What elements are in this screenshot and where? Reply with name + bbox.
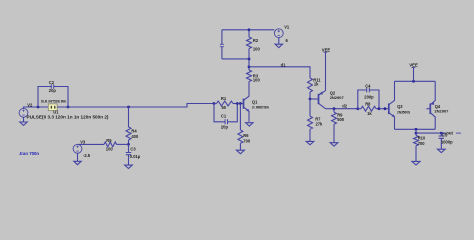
svg-text:20p: 20p bbox=[49, 88, 57, 93]
capacitor C4 bbox=[358, 83, 379, 108]
directive .tran bbox=[19, 151, 40, 156]
svg-text:d1: d1 bbox=[281, 62, 287, 67]
wire out bbox=[416, 132, 446, 134]
svg-text:R4: R4 bbox=[131, 129, 137, 134]
svg-text:100: 100 bbox=[106, 146, 114, 151]
net flag VEE lower bbox=[409, 63, 418, 82]
node C5 tap bbox=[440, 132, 443, 135]
svg-text:R5: R5 bbox=[106, 138, 112, 143]
transistor Q1 bbox=[244, 82, 270, 122]
resistor R4 bbox=[126, 127, 139, 140]
resistor R3 bbox=[247, 67, 261, 83]
svg-text:1k: 1k bbox=[314, 82, 319, 87]
wire out stub bbox=[415, 129, 417, 133]
svg-text:C2: C2 bbox=[49, 80, 55, 85]
resistor R6 bbox=[238, 130, 251, 143]
node R8 C4 left bbox=[356, 107, 359, 110]
ground under Q1 emitter bbox=[246, 123, 253, 126]
wire R6 to ground bbox=[239, 143, 241, 150]
svg-text:R10: R10 bbox=[418, 136, 426, 141]
wire R4 to node bbox=[128, 140, 130, 144]
svg-text:27k: 27k bbox=[316, 121, 324, 126]
svg-text:VEE: VEE bbox=[322, 47, 331, 52]
svg-text:R2: R2 bbox=[253, 38, 259, 43]
node out tap bbox=[415, 128, 418, 131]
wire R6 stub bbox=[239, 104, 241, 131]
svg-text:0.01µ: 0.01µ bbox=[130, 154, 141, 159]
wire emitter rail bottom bbox=[395, 128, 436, 130]
svg-text:500: 500 bbox=[337, 117, 345, 122]
svg-text:PULSE(0 3.3 120n 1n 1n 120n 50: PULSE(0 3.3 120n 1n 1n 120n 500n 2) bbox=[27, 114, 110, 119]
svg-text:200p: 200p bbox=[364, 94, 374, 99]
svg-text:V1: V1 bbox=[284, 25, 290, 30]
svg-text:C1: C1 bbox=[221, 113, 227, 118]
svg-text:1k: 1k bbox=[367, 111, 372, 116]
ground under V2 bbox=[20, 117, 27, 125]
svg-text:d2: d2 bbox=[342, 103, 348, 108]
net label d2 bbox=[342, 103, 348, 108]
node R6 tap bbox=[239, 102, 242, 105]
resistor R1 bbox=[214, 96, 237, 110]
ground under R7 bbox=[306, 141, 314, 144]
svg-text:700: 700 bbox=[418, 141, 426, 146]
svg-text:VEE: VEE bbox=[409, 63, 418, 68]
wire R2 bottom bbox=[222, 59, 249, 67]
svg-text:R1: R1 bbox=[221, 96, 227, 101]
svg-text:2N3500S: 2N3500S bbox=[397, 109, 410, 114]
net flag VEE upper bbox=[322, 47, 331, 52]
svg-text:-2.5: -2.5 bbox=[83, 153, 91, 158]
capacitor C1 bbox=[214, 104, 237, 130]
resistor R11 bbox=[308, 77, 322, 99]
wire R5 to node bbox=[117, 143, 129, 145]
voltage source V1 bbox=[274, 25, 290, 44]
svg-text:50: 50 bbox=[222, 105, 227, 110]
svg-text:2N2907: 2N2907 bbox=[330, 95, 345, 100]
svg-text:R8: R8 bbox=[365, 101, 371, 106]
svg-text:20p: 20p bbox=[221, 125, 229, 130]
voltage source V3 bbox=[73, 139, 91, 158]
svg-text:700: 700 bbox=[243, 138, 251, 143]
wire R10 to ground bbox=[415, 146, 417, 162]
resistor R2 bbox=[247, 30, 261, 59]
node C2 left tap bbox=[37, 106, 40, 109]
node R4 tap bbox=[127, 106, 130, 109]
node R9 tap bbox=[333, 107, 336, 110]
svg-text:2N2907: 2N2907 bbox=[434, 109, 449, 114]
svg-text:C3: C3 bbox=[130, 147, 136, 152]
svg-text:V3: V3 bbox=[80, 139, 86, 144]
svg-text:R6: R6 bbox=[243, 133, 249, 138]
ground under V1 bbox=[275, 38, 282, 48]
node Q3 base bbox=[384, 107, 387, 110]
svg-text:10_MMBT3906: 10_MMBT3906 bbox=[252, 104, 269, 109]
svg-text:C5: C5 bbox=[442, 133, 448, 138]
svg-text:100: 100 bbox=[253, 47, 261, 52]
svg-text:DLR_IN/T52/E 9N6: DLR_IN/T52/E 9N6 bbox=[41, 98, 67, 103]
resistor R9 bbox=[332, 109, 345, 125]
node C2 right tap bbox=[67, 106, 70, 109]
transistor Q4 bbox=[426, 81, 449, 129]
node R1 C1 right bbox=[236, 102, 239, 105]
svg-text:out: out bbox=[446, 130, 453, 135]
node d1 bbox=[248, 65, 251, 68]
wire R7 to ground bbox=[309, 129, 311, 141]
ground under C3 bbox=[125, 165, 133, 168]
wire d2 bbox=[326, 108, 358, 110]
svg-text:100: 100 bbox=[253, 78, 261, 83]
value label V2 PULSE bbox=[27, 114, 110, 119]
wire R2 top bbox=[222, 29, 249, 31]
wire VEE rail top bbox=[395, 80, 436, 82]
node R8 C4 right bbox=[378, 107, 381, 110]
wire R4 stub top bbox=[128, 107, 130, 127]
capacitor loop left bbox=[220, 30, 224, 59]
node R2 bottom bbox=[248, 58, 251, 61]
svg-text:1000p: 1000p bbox=[441, 139, 453, 144]
wire VEE to Q2 emitter bbox=[325, 53, 327, 91]
node out row bbox=[415, 132, 418, 135]
transistor Q2 bbox=[319, 91, 345, 109]
IC U1 delay line bbox=[41, 98, 67, 114]
wire R9 to ground bbox=[333, 124, 335, 143]
voltage source V2 bbox=[19, 103, 33, 118]
ground under R9 bbox=[330, 143, 338, 146]
svg-text:.tran 700n: .tran 700n bbox=[19, 151, 40, 156]
wire base Q2 bbox=[310, 98, 319, 100]
ground under R10 bbox=[412, 161, 420, 165]
wire U1 to R1 with jog bbox=[57, 104, 214, 108]
wire d1 to R11 bbox=[249, 67, 310, 78]
node R4 R5 C3 bbox=[127, 143, 130, 146]
resistor R10 bbox=[414, 133, 426, 146]
svg-text:C4: C4 bbox=[365, 83, 371, 88]
capacitor C5 bbox=[439, 133, 454, 150]
ground under C5 bbox=[438, 149, 446, 152]
wire to Q3 base bbox=[379, 108, 389, 110]
resistor R8 bbox=[358, 101, 379, 116]
capacitor C2 bbox=[38, 80, 68, 107]
capacitor C3 bbox=[126, 144, 141, 165]
node VEE tap bbox=[412, 80, 415, 83]
wire V3 to R5 bbox=[78, 143, 105, 145]
net label out bbox=[446, 130, 461, 135]
svg-text:U1: U1 bbox=[53, 110, 59, 115]
wire to V1 bbox=[249, 29, 274, 31]
node Q2 base bbox=[309, 98, 312, 101]
node R2 top bbox=[248, 28, 251, 31]
ground under V3 bbox=[74, 153, 81, 165]
wire base Q1 bbox=[237, 103, 243, 105]
node R1 C1 left bbox=[213, 102, 216, 105]
ground under R6 bbox=[236, 150, 244, 154]
resistor R5 bbox=[104, 138, 117, 151]
svg-text:400: 400 bbox=[131, 134, 139, 139]
wire V2 to U1 bbox=[24, 107, 49, 108]
transistor Q3 bbox=[389, 81, 411, 129]
resistor R7 bbox=[308, 99, 324, 129]
net label d1 bbox=[281, 62, 287, 67]
